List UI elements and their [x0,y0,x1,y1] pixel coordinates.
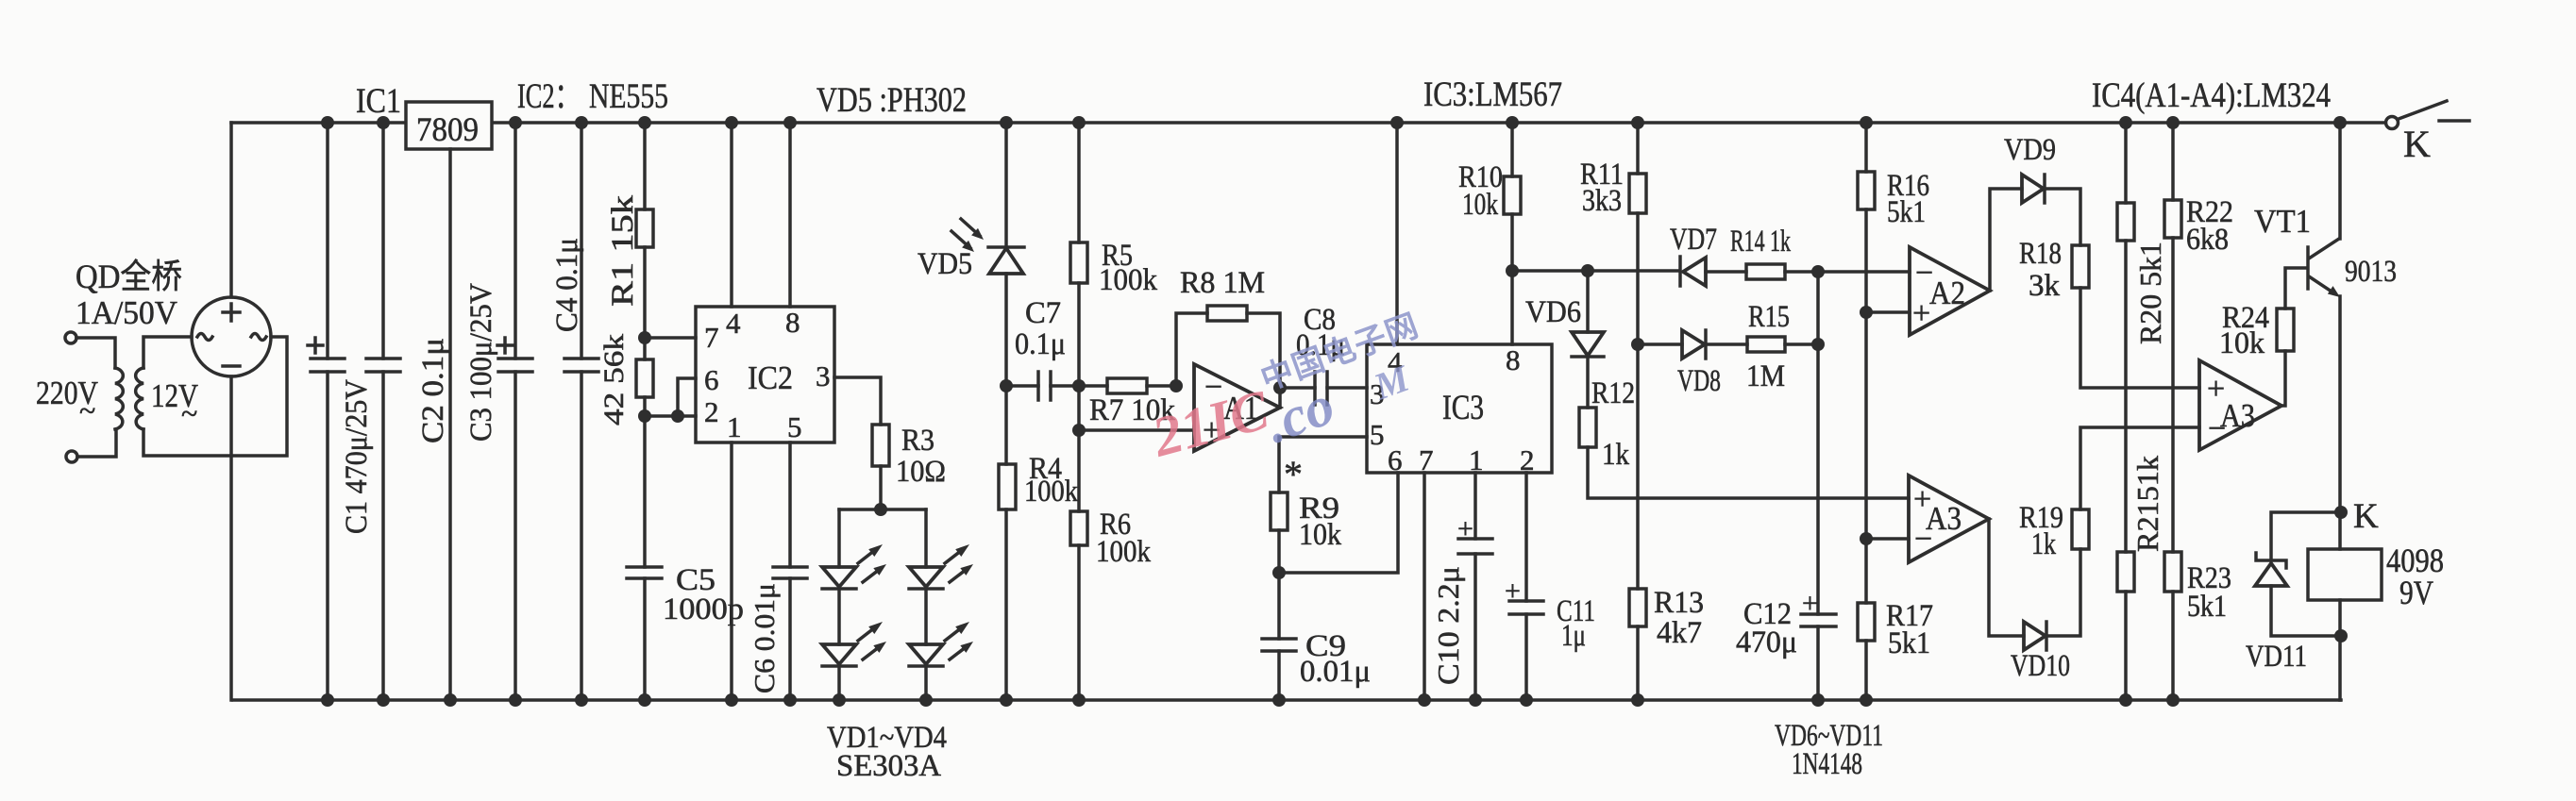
svg-text:~: ~ [79,393,95,427]
svg-text:C1 470μ/25V: C1 470μ/25V [340,379,374,534]
svg-text:8: 8 [785,306,800,339]
svg-text:R18: R18 [2019,237,2062,271]
svg-text:R13: R13 [1654,586,1704,620]
svg-text:6: 6 [1388,443,1403,476]
svg-text:1: 1 [727,410,742,443]
svg-text:VD7: VD7 [1670,223,1717,257]
svg-text:R14 1k: R14 1k [1730,225,1791,259]
svg-text:IC1: IC1 [356,82,401,121]
svg-text:1k: 1k [1602,438,1629,472]
svg-text:VT1: VT1 [2254,203,2311,240]
svg-text:1μ: 1μ [1561,619,1586,653]
svg-text:10k: 10k [2219,326,2265,360]
svg-text:SE303A: SE303A [836,749,941,783]
svg-text:VD5: VD5 [918,247,972,281]
svg-text:5: 5 [787,410,802,443]
svg-text:K: K [2353,497,2379,536]
svg-text:VD5 :PH302: VD5 :PH302 [817,81,967,120]
svg-text:0.01μ: 0.01μ [1300,655,1371,689]
svg-text:~: ~ [181,396,197,430]
svg-text:5: 5 [1370,418,1385,451]
svg-text:IC3: IC3 [1442,389,1484,427]
svg-text:R20 5k1: R20 5k1 [2133,242,2167,344]
svg-text:VD8: VD8 [1677,364,1721,398]
svg-text:R15: R15 [1748,300,1790,334]
svg-text:R8 1M: R8 1M [1180,266,1265,300]
svg-text:NE555: NE555 [589,77,668,116]
svg-text:IC2：: IC2： [517,77,580,116]
svg-text:6: 6 [704,363,719,396]
svg-text:VD6: VD6 [1525,295,1581,329]
svg-text:C4 0.1μ: C4 0.1μ [550,238,584,332]
svg-text:K: K [2403,123,2431,165]
svg-text:*: * [1284,453,1303,495]
svg-text:1M: 1M [1746,359,1785,393]
svg-text:IC2: IC2 [748,359,793,396]
svg-text:R12: R12 [1591,376,1635,410]
svg-text:5k1: 5k1 [1888,626,1930,660]
svg-text:10Ω: 10Ω [896,455,946,489]
svg-text:100k: 100k [1096,535,1151,569]
svg-text:R2151k: R2151k [2130,456,2164,552]
svg-text:4k7: 4k7 [1657,616,1702,650]
svg-text:+: + [1912,296,1930,331]
svg-text:1000p: 1000p [663,592,744,626]
svg-text:0.1μ: 0.1μ [1015,327,1066,361]
svg-text:10k: 10k [1462,188,1498,222]
svg-text:7809: 7809 [416,110,479,148]
svg-text:A2: A2 [1929,275,1965,311]
svg-text:2: 2 [704,395,719,428]
svg-text:VD11: VD11 [2246,640,2307,674]
svg-text:C2 0.1μ: C2 0.1μ [416,338,450,443]
svg-text:R3: R3 [901,424,934,458]
svg-text:7: 7 [1419,443,1434,476]
svg-text:100k: 100k [1024,475,1078,509]
svg-text:IC4(A1-A4):LM324: IC4(A1-A4):LM324 [2092,76,2331,115]
svg-text:10k: 10k [1299,518,1341,552]
svg-text:5k1: 5k1 [1887,195,1926,229]
svg-text:QD全桥: QD全桥 [76,258,182,295]
svg-text:4: 4 [726,307,741,340]
svg-text:C10 2.2μ: C10 2.2μ [1431,566,1465,685]
svg-text:VD9: VD9 [2004,133,2056,167]
svg-text:9V: 9V [2399,574,2433,611]
svg-text:2: 2 [1520,443,1535,476]
svg-text:3k3: 3k3 [1582,184,1622,218]
svg-text:8: 8 [1506,343,1521,376]
svg-text:3: 3 [816,359,831,392]
svg-text:42 56k: 42 56k [598,334,630,426]
svg-text:6k8: 6k8 [2186,223,2229,257]
svg-text:−: − [1914,522,1932,557]
svg-text:+: + [1802,588,1818,619]
svg-text:+: + [1505,576,1521,607]
svg-text:1N4148: 1N4148 [1792,747,1862,781]
svg-text:IC3:LM567: IC3:LM567 [1423,75,1562,114]
svg-text:100k: 100k [1099,263,1157,297]
svg-text:C7: C7 [1025,296,1061,330]
svg-text:1: 1 [1469,443,1484,476]
svg-text:−: − [2208,411,2226,446]
svg-text:5k1: 5k1 [2187,590,2227,624]
svg-text:C6 0.01μ: C6 0.01μ [748,583,781,693]
svg-text:VD10: VD10 [2011,649,2070,683]
svg-text:7: 7 [704,321,719,354]
svg-text:1A/50V: 1A/50V [76,294,177,331]
svg-text:1k: 1k [2031,527,2056,561]
svg-text:+: + [1457,513,1473,544]
svg-text:9013: 9013 [2345,255,2397,289]
svg-text:R1 15k: R1 15k [606,194,640,307]
svg-text:470μ: 470μ [1736,626,1797,659]
svg-text:C3 100μ/25V: C3 100μ/25V [464,283,498,442]
svg-text:3k: 3k [2029,269,2061,303]
